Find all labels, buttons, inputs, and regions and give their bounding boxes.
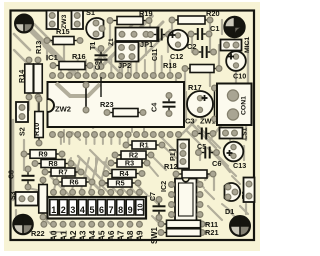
svg-text:R13: R13 bbox=[34, 41, 43, 54]
svg-text:R18: R18 bbox=[163, 61, 177, 70]
svg-text:MIC1: MIC1 bbox=[244, 37, 251, 53]
svg-text:R3: R3 bbox=[125, 159, 134, 168]
svg-text:A6: A6 bbox=[107, 230, 116, 241]
svg-text:S2: S2 bbox=[18, 127, 27, 136]
svg-text:A9: A9 bbox=[136, 230, 145, 241]
svg-text:C9: C9 bbox=[95, 61, 102, 70]
svg-text:R6: R6 bbox=[69, 178, 78, 187]
svg-text:T1: T1 bbox=[88, 42, 97, 50]
svg-text:R23: R23 bbox=[100, 100, 114, 109]
svg-text:Z1: Z1 bbox=[108, 38, 115, 46]
svg-text:IC2: IC2 bbox=[159, 181, 168, 192]
svg-text:R19: R19 bbox=[139, 9, 153, 18]
svg-text:C7: C7 bbox=[150, 192, 157, 201]
svg-text:D1: D1 bbox=[225, 207, 234, 216]
svg-text:R1: R1 bbox=[139, 141, 148, 150]
svg-text:R15: R15 bbox=[56, 27, 70, 36]
svg-text:R21: R21 bbox=[205, 228, 219, 237]
svg-text:R10: R10 bbox=[32, 123, 41, 136]
svg-text:1: 1 bbox=[51, 205, 56, 215]
svg-text:A5: A5 bbox=[97, 230, 106, 241]
svg-text:C13: C13 bbox=[233, 161, 246, 170]
svg-text:A7: A7 bbox=[117, 230, 126, 241]
svg-text:10: 10 bbox=[135, 204, 144, 212]
svg-text:4: 4 bbox=[80, 205, 85, 215]
svg-text:R2: R2 bbox=[129, 151, 138, 160]
svg-text:C4: C4 bbox=[150, 103, 159, 112]
svg-text:ZW2: ZW2 bbox=[55, 105, 71, 114]
svg-text:R8: R8 bbox=[48, 159, 57, 168]
svg-text:S1: S1 bbox=[86, 8, 95, 17]
svg-text:R4: R4 bbox=[119, 169, 128, 178]
svg-text:JP2: JP2 bbox=[118, 61, 131, 70]
svg-text:R16: R16 bbox=[72, 52, 86, 61]
svg-text:R12: R12 bbox=[164, 162, 178, 171]
svg-text:P1: P1 bbox=[168, 152, 177, 161]
svg-text:SW1: SW1 bbox=[150, 226, 159, 244]
svg-text:C12: C12 bbox=[170, 52, 183, 61]
svg-text:C6: C6 bbox=[212, 159, 221, 168]
svg-text:CON1: CON1 bbox=[241, 96, 248, 115]
svg-text:R22: R22 bbox=[31, 229, 45, 238]
svg-text:8: 8 bbox=[118, 205, 123, 215]
svg-text:A3: A3 bbox=[78, 230, 87, 241]
svg-text:R7: R7 bbox=[58, 168, 67, 177]
svg-text:LS1: LS1 bbox=[242, 127, 249, 140]
svg-text:A4: A4 bbox=[88, 230, 97, 241]
svg-text:9: 9 bbox=[128, 205, 133, 215]
svg-text:IC1: IC1 bbox=[46, 53, 59, 62]
svg-text:3: 3 bbox=[70, 205, 75, 215]
svg-text:C3: C3 bbox=[185, 117, 194, 126]
svg-text:R14: R14 bbox=[17, 70, 26, 83]
svg-text:C10: C10 bbox=[233, 72, 246, 81]
svg-text:A2: A2 bbox=[69, 230, 78, 241]
svg-text:A1: A1 bbox=[59, 230, 68, 241]
svg-text:2: 2 bbox=[61, 205, 66, 215]
svg-text:C11: C11 bbox=[152, 48, 159, 61]
svg-text:R20: R20 bbox=[206, 9, 220, 18]
svg-text:6: 6 bbox=[99, 205, 104, 215]
svg-text:JP1: JP1 bbox=[140, 40, 153, 49]
svg-text:C1: C1 bbox=[210, 24, 219, 33]
svg-text:R9: R9 bbox=[38, 150, 47, 159]
svg-text:5: 5 bbox=[89, 205, 94, 215]
svg-text:C8: C8 bbox=[9, 170, 16, 179]
svg-text:A8: A8 bbox=[126, 230, 135, 241]
svg-text:R5: R5 bbox=[115, 179, 124, 188]
svg-text:A0: A0 bbox=[50, 230, 59, 241]
svg-text:7: 7 bbox=[109, 205, 114, 215]
svg-text:S3: S3 bbox=[10, 191, 17, 200]
